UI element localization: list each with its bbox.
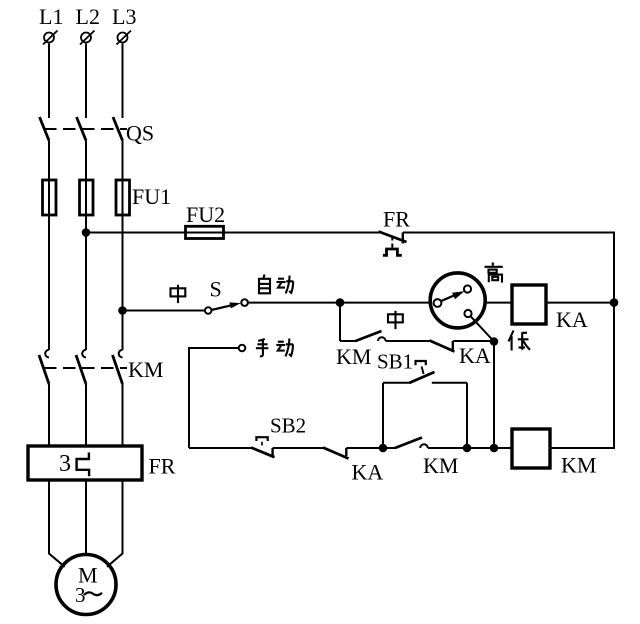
svg-text:KM: KM	[128, 357, 163, 382]
wire manual terminal to left corner	[189, 348, 239, 448]
svg-text:KA: KA	[352, 460, 384, 485]
SB2 button actuator	[256, 437, 267, 441]
wire KM aux to KA NC	[386, 340, 430, 342]
KA NO contact blade (bottom)	[323, 448, 349, 459]
right rail	[613, 232, 615, 450]
switch S manual terminal	[239, 345, 246, 352]
wire float to KA coil	[485, 302, 512, 304]
FR NC contact blade	[379, 232, 407, 243]
terminal L1	[39, 4, 63, 45]
wire L2 to QS	[85, 44, 87, 119]
wire FU1 to KM pole1	[48, 215, 50, 350]
node E junction	[490, 444, 499, 453]
wire L3 to QS	[122, 44, 124, 119]
switch QS pole 2	[77, 117, 87, 141]
float switch body	[430, 273, 485, 328]
thermal relay FR box	[28, 446, 142, 480]
node A junction	[336, 298, 345, 307]
wire FR contact to right rail	[403, 232, 615, 234]
terminal L2	[76, 4, 100, 45]
node rail-KA junction	[610, 298, 619, 307]
KM aux fixed semicircle (bottom)	[420, 444, 428, 448]
svg-text:SB1: SB1	[377, 350, 413, 374]
svg-text:KA: KA	[556, 307, 588, 332]
switch QS pole 3	[113, 117, 123, 141]
wire KM coil to rail	[550, 447, 615, 449]
wire QS to FU1 pole1	[48, 141, 50, 181]
fuse FU1 pole1	[48, 180, 50, 215]
fuse FU1 pole2	[85, 180, 87, 215]
label 中 (right)	[388, 311, 403, 329]
motor lead 3	[107, 480, 123, 567]
svg-text:FR: FR	[383, 207, 410, 232]
svg-text:KA: KA	[459, 343, 491, 368]
node on L3 feeding switch S	[118, 306, 127, 315]
switch S common terminal	[205, 307, 212, 314]
SB1 button actuator	[416, 361, 426, 365]
terminal L3	[112, 4, 136, 45]
fuse FU1 pole3	[122, 180, 124, 215]
label 手动	[256, 339, 293, 357]
motor lead 2	[85, 480, 87, 555]
contactor KM pole 2 blade	[76, 355, 86, 384]
contactor KM pole 1 blade	[39, 355, 49, 384]
KM aux contact lead (bottom)	[383, 447, 396, 449]
SB1 NO blade	[410, 372, 435, 383]
svg-text:3: 3	[59, 451, 71, 477]
svg-text:S: S	[210, 277, 222, 302]
svg-text:3: 3	[75, 583, 86, 607]
contactor KM pole 1 semicircle	[45, 350, 49, 358]
svg-text:QS: QS	[126, 121, 154, 146]
KM linkage dashed	[44, 367, 127, 369]
wire KM pole1 to FR box	[48, 384, 50, 446]
svg-text:KM: KM	[336, 344, 371, 369]
contactor KM pole 2 semicircle	[82, 350, 86, 358]
switch S auto terminal	[241, 299, 248, 306]
svg-text:KM: KM	[423, 453, 458, 478]
wire node D to KM coil	[467, 447, 512, 449]
node D junction	[463, 444, 472, 453]
wire S to node A	[248, 302, 431, 304]
FR NC contact stop	[402, 233, 404, 244]
contactor KM pole 3 semicircle	[119, 350, 123, 358]
KM aux contact blade	[356, 331, 382, 341]
switch QS pole 1	[40, 117, 50, 141]
KA NC contact blade	[430, 341, 455, 352]
svg-text:FU2: FU2	[186, 202, 225, 227]
wire KM pole3 to FR box	[122, 384, 124, 446]
FR thermal element symbol	[383, 249, 402, 255]
node on L2 feeding FU2	[82, 228, 91, 237]
motor M circle	[56, 555, 116, 615]
label 中 (left)	[171, 285, 186, 303]
KA NO contact stop (bottom)	[345, 448, 347, 456]
KM aux fixed contact semicircle	[378, 337, 386, 341]
KM aux contact (auto branch) lead	[340, 340, 356, 342]
wire node to FU2	[86, 232, 185, 234]
fuse FU2	[186, 232, 224, 234]
wire KA contact to node C	[346, 447, 383, 449]
KA NC contact stop	[452, 341, 454, 351]
SB1 branch right riser	[466, 383, 468, 448]
wire FU1 to KM pole3	[122, 215, 124, 350]
node C junction	[379, 444, 388, 453]
wire KA NC to node B	[453, 340, 494, 342]
label 自动	[259, 275, 293, 294]
SB1 branch top lead	[383, 382, 410, 384]
wire FU2 to FR contact	[219, 232, 380, 234]
bottom line left segment	[189, 447, 252, 449]
svg-text:L2: L2	[76, 4, 100, 29]
svg-text:FR: FR	[149, 454, 176, 479]
float switch low contact	[464, 310, 471, 317]
wire KM aux to node D	[428, 447, 467, 449]
coil KA	[512, 285, 546, 324]
wire node B down	[493, 342, 495, 449]
contactor KM pole 3 blade	[113, 355, 123, 384]
branch node A down	[339, 303, 341, 341]
wire QS to FU1 pole2	[85, 141, 87, 181]
float switch arrow	[442, 295, 456, 301]
wire KM pole2 to FR box	[85, 384, 87, 446]
SB1 branch right lead	[432, 382, 467, 384]
SB2 NC stop	[271, 448, 273, 456]
svg-text:SB2: SB2	[270, 414, 306, 438]
wire QS to FU1 pole3	[122, 141, 124, 181]
wire FU1 to KM pole2	[85, 215, 87, 350]
FR thermal dashes	[391, 237, 393, 249]
SB2 NC blade	[251, 448, 275, 458]
motor lead 1	[49, 480, 65, 567]
svg-text:L1: L1	[39, 4, 63, 29]
wire node to S	[123, 310, 206, 312]
svg-text:KM: KM	[561, 453, 596, 478]
node B junction	[490, 337, 499, 346]
float switch common contact	[434, 299, 442, 307]
switch S blade with arrow	[211, 305, 232, 310]
float switch high contact	[464, 285, 471, 292]
coil KM	[512, 429, 550, 468]
svg-text:L3: L3	[112, 4, 136, 29]
SB1 branch left riser	[382, 383, 384, 448]
wire L1 to QS	[48, 44, 50, 119]
svg-text:FU1: FU1	[132, 184, 171, 209]
label 高	[485, 263, 503, 283]
QS linkage dashed	[44, 128, 127, 130]
wire SB2 to KA contact	[273, 447, 324, 449]
heater element symbol	[77, 453, 90, 477]
label 低	[509, 331, 531, 351]
KM aux contact blade (bottom)	[395, 438, 422, 449]
wire low contact to node B	[471, 316, 494, 341]
wire KA coil to rail	[546, 302, 614, 304]
